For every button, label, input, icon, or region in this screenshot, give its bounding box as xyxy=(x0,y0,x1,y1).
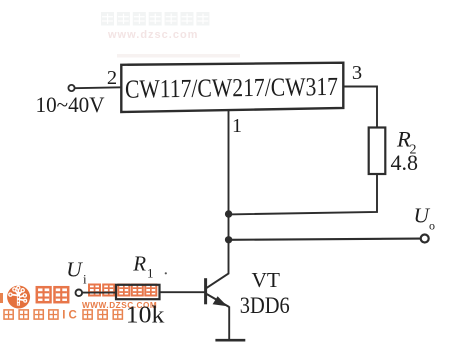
watermark faint smudge line xyxy=(117,54,240,58)
label 10k xyxy=(126,301,165,328)
label 3DD6 xyxy=(240,293,290,318)
wire input to pin 2 xyxy=(75,86,122,89)
svg-text:10~40V: 10~40V xyxy=(36,92,105,117)
pin 2 label xyxy=(107,67,117,89)
wire R1 to base xyxy=(160,291,205,293)
label 4.8 xyxy=(391,150,419,175)
logo slogan row 全球最大IC采购网 xyxy=(4,310,122,322)
svg-text:R: R xyxy=(132,252,146,276)
wire node B to output terminal xyxy=(229,239,421,240)
pin 3 label xyxy=(352,62,362,84)
svg-text:CW117/CW217/CW317: CW117/CW217/CW317 xyxy=(125,72,338,104)
label 10~40V xyxy=(36,92,105,117)
label R1 xyxy=(132,252,153,281)
node A junction dot xyxy=(225,210,232,217)
svg-text:10k: 10k xyxy=(126,301,165,328)
svg-text:3DD6: 3DD6 xyxy=(240,293,290,318)
transistor VT collector stroke xyxy=(206,273,229,288)
svg-text:3: 3 xyxy=(352,62,362,84)
wire R2 bottom to node A xyxy=(229,174,377,214)
label VT xyxy=(252,268,281,292)
svg-text:1: 1 xyxy=(232,115,242,137)
input terminal circle xyxy=(68,85,74,91)
logo url text xyxy=(82,301,157,310)
svg-text:VT: VT xyxy=(252,268,281,292)
watermark top pink url xyxy=(107,29,198,41)
svg-text:o: o xyxy=(429,219,435,233)
resistor R1 body xyxy=(116,285,160,299)
svg-text:2: 2 xyxy=(107,67,117,89)
wire Ui to R1 xyxy=(82,292,116,294)
svg-text:U: U xyxy=(66,258,83,282)
logo main text 维库电子市场网 xyxy=(37,285,157,303)
node B junction dot xyxy=(225,236,232,243)
ground bar xyxy=(215,339,245,342)
label R2 xyxy=(396,127,417,158)
pin 1 label xyxy=(232,115,242,137)
svg-text:4.8: 4.8 xyxy=(391,150,419,175)
svg-text:IC: IC xyxy=(62,310,80,322)
watermark top gray text row xyxy=(101,12,209,26)
resistor R2 body xyxy=(369,128,386,175)
svg-text:www.dzsc.com: www.dzsc.com xyxy=(107,29,198,41)
pin 1 wire vertical xyxy=(228,110,230,274)
label Ui xyxy=(66,258,87,287)
transistor VT emitter stroke with arrow xyxy=(206,294,229,307)
IC box CW117/CW217/CW317 xyxy=(121,63,343,112)
logo circle icon xyxy=(7,286,30,309)
input terminal Ui circle xyxy=(76,290,83,297)
svg-text:1: 1 xyxy=(147,266,154,281)
wire pin 3 to R2 xyxy=(343,87,377,128)
logo partial glyph left edge xyxy=(0,293,3,303)
svg-text:i: i xyxy=(83,272,87,287)
output terminal circle xyxy=(421,235,429,243)
label Uo xyxy=(414,204,436,233)
emitter wire down xyxy=(228,307,230,341)
svg-text:U: U xyxy=(414,204,431,228)
stray dot xyxy=(165,272,167,274)
transistor VT base bar xyxy=(204,278,207,304)
